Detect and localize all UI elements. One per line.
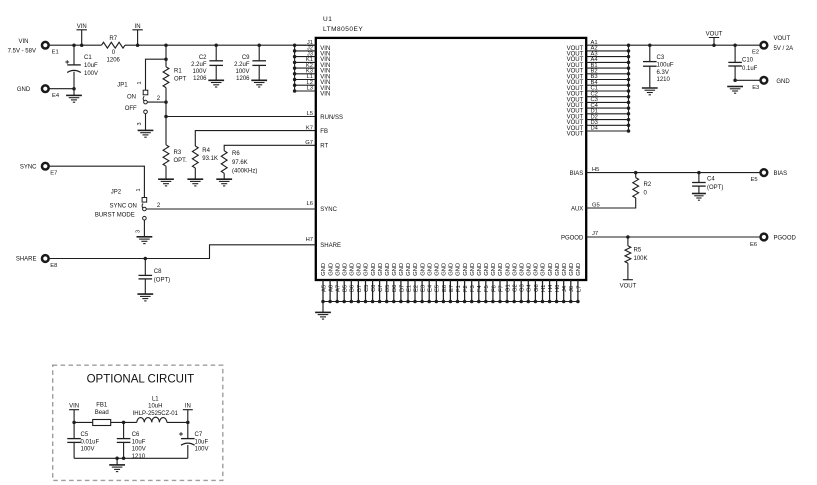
pin E7 GND [449,263,455,303]
svg-text:VOUT: VOUT [706,32,723,38]
jumper JP2 [142,198,147,221]
svg-text:VIN: VIN [18,39,28,45]
capacitor C5 0.01uF 100V [73,422,75,438]
terminal E4 GND [42,85,49,92]
pin B1 VOUT [567,63,631,75]
svg-text:FB1: FB1 [96,403,108,409]
svg-text:(OPT): (OPT) [707,185,723,191]
pin H6 GND [555,263,561,303]
node C10 tap [733,43,737,47]
node C10 ground junction [733,79,737,83]
wire R2 to AUX G5 [586,198,636,208]
svg-text:K7: K7 [306,125,313,131]
node C6 tap [122,421,126,425]
svg-text:E7: E7 [50,171,57,177]
wire JP1 pin3 to ground [145,114,147,131]
op-amp U1 LTM8050EY body [316,38,586,280]
svg-text:GND: GND [527,263,533,276]
label 2 JP1 [157,96,161,102]
capacitor C9 2.2uF 100V 1206 [258,45,260,61]
jumper JP1 [143,90,148,113]
svg-text:GND: GND [342,263,348,276]
ground below C9 [251,80,267,87]
svg-text:1206: 1206 [107,57,121,63]
svg-text:10uF: 10uF [195,439,209,445]
label C9 values [234,55,250,82]
svg-text:E7: E7 [449,285,455,292]
pin E5 GND [435,263,441,303]
svg-text:F4: F4 [477,284,483,292]
svg-text:VIN: VIN [69,403,79,409]
terminal E2 VOUT [761,42,768,49]
pin L2 VIN [293,80,330,92]
capacitor C3 100uF 6.3V 1210 [649,45,651,61]
svg-text:L5: L5 [307,111,313,117]
ground below GND bus [322,302,324,313]
wire JP1 pin2 to RUN/SS column [147,101,166,103]
svg-text:GND: GND [17,87,31,93]
svg-text:GND: GND [321,263,327,276]
svg-text:GND: GND [541,263,547,276]
resistor R4 93.1K [192,146,198,168]
wire VOUT right bus [628,45,630,131]
svg-text:GND: GND [505,263,511,276]
svg-text:IN: IN [185,403,191,409]
pin J6 GND [569,263,575,303]
svg-text:G4: G4 [527,283,533,292]
label GND output [776,79,790,85]
label SHARE [16,257,37,263]
svg-text:GND: GND [442,263,448,276]
svg-text:1210: 1210 [132,454,146,460]
svg-text:10uH: 10uH [148,404,162,410]
wire R6 to ground [223,173,225,179]
label LTM8050EY [323,26,363,33]
svg-text:E5: E5 [751,177,758,183]
svg-text:LTM8050EY: LTM8050EY [323,26,363,33]
ground below R4 [187,179,203,186]
pin L6 SYNC label [307,201,338,213]
resistor R5 100K [627,237,629,246]
wire SHARE E8 to IC H7 [49,245,315,259]
pin F4 GND [477,263,483,303]
svg-text:E1: E1 [406,285,412,292]
svg-text:1206: 1206 [236,76,250,82]
label C4 OPT [707,176,723,191]
pin A3 VOUT [567,51,631,63]
svg-text:E6: E6 [750,242,757,248]
wire VIN to FB1 [74,421,93,423]
node C4 tap [697,171,701,175]
svg-text:GND: GND [435,263,441,276]
svg-text:E6: E6 [442,285,448,292]
svg-text:SHARE: SHARE [16,257,37,263]
svg-text:BIAS: BIAS [570,171,584,177]
pin A7 GND [335,263,341,303]
wire SYNC E7 to JP2 [49,166,144,197]
svg-text:C7: C7 [378,285,384,292]
label C3 values [657,55,674,83]
pin C3 VOUT [567,97,631,109]
label BIAS [774,171,788,177]
label E5 [751,177,758,183]
svg-text:3: 3 [136,230,142,233]
svg-text:C5: C5 [364,285,370,292]
svg-text:E4: E4 [428,284,434,292]
pin B5 GND [342,263,348,303]
pin J7 PGOOD label [561,231,598,241]
svg-text:R2: R2 [644,182,652,188]
svg-text:SYNC: SYNC [20,164,37,170]
pin B7 GND [357,263,363,303]
pin D1 VOUT [567,109,631,121]
pin G1 GND [505,263,511,303]
svg-text:GND: GND [576,263,582,276]
svg-text:L7: L7 [576,286,582,292]
pin C4 VOUT [567,103,631,115]
ground below R6 [216,179,232,186]
svg-text:F7: F7 [498,285,504,292]
label ON [127,94,136,100]
svg-text:D5: D5 [385,285,391,292]
svg-text:GND: GND [427,263,433,276]
pin G4 GND [527,263,533,303]
svg-text:VOUT: VOUT [567,132,584,138]
svg-text:C6: C6 [371,285,377,292]
svg-text:G7: G7 [305,140,313,146]
svg-text:GND: GND [378,263,384,276]
pin K2 VIN [293,63,330,75]
pin G5 AUX label [571,202,600,212]
pin K7 FB label [306,125,328,135]
label 3 JP1 [137,122,143,125]
svg-text:GND: GND [328,263,334,276]
svg-text:GND: GND [413,263,419,276]
pin D2 VOUT [567,114,631,126]
label JP2 [111,190,122,196]
node VOUT net tick [623,279,633,281]
wire JP1 pin1 to R1 column [146,59,167,90]
wire JP2 pin2 to IC SYNC L6 [146,208,316,210]
wire E4 to C1 bottom [49,88,74,90]
label 2 JP2 [157,203,161,209]
capacitor C10 0.1uF [734,45,736,62]
pin F2 GND [463,263,469,303]
svg-text:OPT.: OPT. [174,158,188,164]
svg-text:100V: 100V [235,69,249,75]
svg-text:F3: F3 [470,285,476,292]
pin D4 VOUT [567,126,631,138]
svg-text:FB: FB [320,129,328,135]
pin A5 GND [321,263,327,303]
svg-text:VOUT: VOUT [774,36,791,42]
svg-text:7.5V - 58V: 7.5V - 58V [8,48,36,54]
svg-text:JP2: JP2 [111,190,122,196]
svg-text:ON: ON [127,94,136,100]
wire VIN tick optional [69,410,79,423]
wire VIN rail down to R1 [165,45,167,67]
svg-text:D6: D6 [392,285,398,292]
pin J1 VIN [293,40,330,52]
pin D6 GND [392,263,398,303]
pin H5 BIAS label [570,167,600,177]
ferrite bead FB1 [93,420,111,426]
node C8 tap [144,257,148,261]
pin A6 GND [328,263,334,303]
svg-text:D7: D7 [399,285,405,292]
label PGOOD [774,235,797,241]
svg-text:C7: C7 [195,432,203,438]
node C6 bottom [122,457,126,461]
label E6 [750,242,757,248]
pin A1 VOUT [567,40,631,52]
ground optional circuit [109,465,125,472]
node R2 top [634,171,638,175]
node R5 top [626,235,630,239]
terminal E7 SYNC [42,163,49,170]
pin F3 GND [470,263,476,303]
ground below JP1 [138,130,154,137]
label OPTIONAL CIRCUIT [87,373,195,385]
label C1 10uF 100V [84,55,98,77]
pin L5 RUN/SS label [307,111,343,121]
svg-text:B6: B6 [350,285,356,292]
label E2 [752,49,759,55]
node VIN testpoint [80,43,84,47]
node C1 ground junction [72,87,76,91]
label SYNC [20,164,37,170]
wire R3 to ground [165,166,167,179]
resistor R6 97.6K [221,151,227,174]
resistor R3 OPT [163,145,169,166]
label R3 OPT. [174,150,188,164]
svg-text:A7: A7 [336,285,342,292]
svg-text:100V: 100V [192,69,206,75]
svg-text:E8: E8 [50,263,57,269]
svg-text:H6: H6 [555,285,561,292]
svg-text:GND: GND [371,263,377,276]
svg-text:E5: E5 [435,285,441,292]
ground below R3 [158,179,174,186]
node VOUT testpoint [712,43,716,47]
svg-text:(400KHz): (400KHz) [232,168,257,174]
node JP1 pin1 tap [164,57,168,61]
wire RUN/SS column down to R3 [165,117,167,145]
pin C5 GND [364,263,370,303]
svg-text:GND: GND [392,263,398,276]
pin D5 GND [385,263,391,303]
svg-text:GND: GND [357,263,363,276]
node C3 tap [648,43,652,47]
label BURST MODE [95,212,135,218]
svg-text:SYNC ON: SYNC ON [110,204,137,210]
pin L3 VIN [293,86,330,98]
label R5 100K [634,247,648,262]
wire FB K7 from R4 to IC [195,131,315,146]
svg-text:GND: GND [534,263,540,276]
svg-text:G1: G1 [506,284,512,292]
svg-text:GND: GND [385,263,391,276]
svg-text:PGOOD: PGOOD [561,235,584,241]
terminal E8 SHARE [42,255,49,262]
svg-text:F1: F1 [456,285,462,292]
svg-text:F6: F6 [491,285,497,292]
svg-text:R3: R3 [174,150,182,156]
svg-text:1206: 1206 [193,76,207,82]
label 1 JP1 [137,81,143,84]
svg-text:E3: E3 [752,85,759,91]
svg-text:G6: G6 [534,284,540,292]
svg-text:R5: R5 [634,247,642,253]
wire RT G7 from R6 to IC [224,145,316,150]
svg-text:R1: R1 [174,68,182,74]
svg-text:GND: GND [555,263,561,276]
label VIN 7.5V - 58V [8,39,36,54]
label U1 [323,16,332,23]
svg-text:GND: GND [406,263,412,276]
pin E1 GND [406,263,412,303]
svg-text:3: 3 [137,122,143,125]
svg-text:6.3V: 6.3V [657,70,669,76]
ground below C1 [66,95,82,102]
wire R1 to JP1 pin2 row [165,88,167,117]
svg-text:Bead: Bead [95,410,109,416]
wire BIAS H5 to E5 [586,172,760,174]
svg-text:H7: H7 [306,237,313,243]
test point IN [132,24,142,45]
wire ground stem optional [116,458,118,465]
svg-text:(OPT): (OPT) [154,277,170,283]
svg-text:2.2uF: 2.2uF [191,62,207,68]
pin E3 GND [420,263,426,303]
svg-text:10uF: 10uF [132,439,146,445]
label VOUT net [620,284,637,290]
svg-text:GND: GND [335,263,341,276]
svg-text:G2: G2 [513,284,519,292]
svg-text:GND: GND [456,263,462,276]
svg-text:A5: A5 [321,285,327,292]
node RUN/SS junction [164,115,168,119]
svg-text:GND: GND [498,263,504,276]
terminal E3 GND [761,77,768,84]
pin J3 VIN [293,51,330,63]
svg-text:SYNC: SYNC [320,207,337,213]
node C9 tap [257,43,261,47]
label VOUT 5V / 2A [774,36,794,52]
label SYNC ON [110,204,137,210]
svg-text:E2: E2 [413,285,419,292]
svg-text:GND: GND [420,263,426,276]
svg-text:IN: IN [135,24,141,30]
svg-text:AUX: AUX [571,206,583,212]
pin D7 GND [399,263,405,303]
resistor R2 0 [635,173,637,178]
svg-text:C10: C10 [742,58,754,64]
label E4 [52,93,60,99]
svg-text:VOUT: VOUT [620,284,637,290]
svg-text:J6: J6 [569,286,575,292]
wire VIN left bus [294,45,296,91]
pin F5 GND [484,263,490,303]
label C7 values [195,432,209,452]
svg-text:5V / 2A: 5V / 2A [774,46,794,52]
node ground tap optional [115,457,119,461]
svg-text:H4: H4 [548,284,554,292]
label C2 values [191,55,207,82]
svg-text:SHARE: SHARE [320,243,341,249]
svg-text:R6: R6 [232,151,240,157]
label FB1 Bead [95,403,109,416]
pin B4 VOUT [567,80,631,92]
ground below C4 [692,194,706,201]
svg-text:IHLP-2525CZ-01: IHLP-2525CZ-01 [133,411,179,417]
pin G3 GND [519,263,525,303]
pin H7 SHARE label [306,237,341,249]
pin H1 GND [541,263,547,303]
svg-text:C5: C5 [81,432,89,438]
svg-text:RUN/SS: RUN/SS [320,115,343,121]
svg-text:100V: 100V [81,447,95,453]
svg-text:GND: GND [477,263,483,276]
pin H4 GND [548,263,554,303]
svg-text:97.6K: 97.6K [232,160,248,166]
svg-text:C1: C1 [84,55,92,61]
svg-text:GND: GND [548,263,554,276]
label OFF [125,106,137,112]
pin E4 GND [427,263,433,303]
pin L7 GND [576,263,582,303]
svg-text:GND: GND [350,263,356,276]
label R4 93.1K [202,148,218,162]
pin E2 GND [413,263,419,303]
pin F6 GND [491,263,497,303]
pin J4 GND [562,263,568,303]
wire VOUT rail to E2 [629,44,760,46]
label L1 10uH IHLP-2525CZ-01 [133,396,179,417]
ground below C3 [642,88,658,95]
svg-text:A6: A6 [329,285,335,292]
label R6 97.6K 400KHz [232,151,257,174]
wire C10 to E3 [735,79,760,81]
svg-text:OPTIONAL CIRCUIT: OPTIONAL CIRCUIT [87,373,195,385]
svg-text:GND: GND [399,263,405,276]
pin D3 VOUT [567,120,631,132]
terminal E1 VIN input [42,42,49,49]
svg-text:0.01uF: 0.01uF [81,439,100,445]
pin F7 GND [498,263,504,303]
capacitor C2 2.2uF 100V 1206 [215,45,217,61]
svg-text:H1: H1 [541,285,547,292]
ground below C10 [727,87,743,94]
wire E1 to VIN rail [49,44,101,46]
svg-text:GND: GND [562,263,568,276]
label C8 OPT [154,269,170,284]
svg-text:100V: 100V [132,447,146,453]
svg-text:E3: E3 [421,285,427,292]
pin K1 VIN [293,57,330,69]
label E1 [52,49,59,55]
wire JP2 pin3 to ground [143,220,145,237]
terminal E6 PGOOD [761,234,768,241]
svg-text:0.1uF: 0.1uF [742,66,758,72]
svg-text:L1: L1 [152,396,159,402]
svg-text:F2: F2 [463,285,469,292]
label R1 OPT [174,68,187,82]
pin B2 VOUT [567,69,631,81]
svg-text:GND: GND [512,263,518,276]
node C1 tap [72,43,76,47]
wire IN tick optional [183,410,193,423]
